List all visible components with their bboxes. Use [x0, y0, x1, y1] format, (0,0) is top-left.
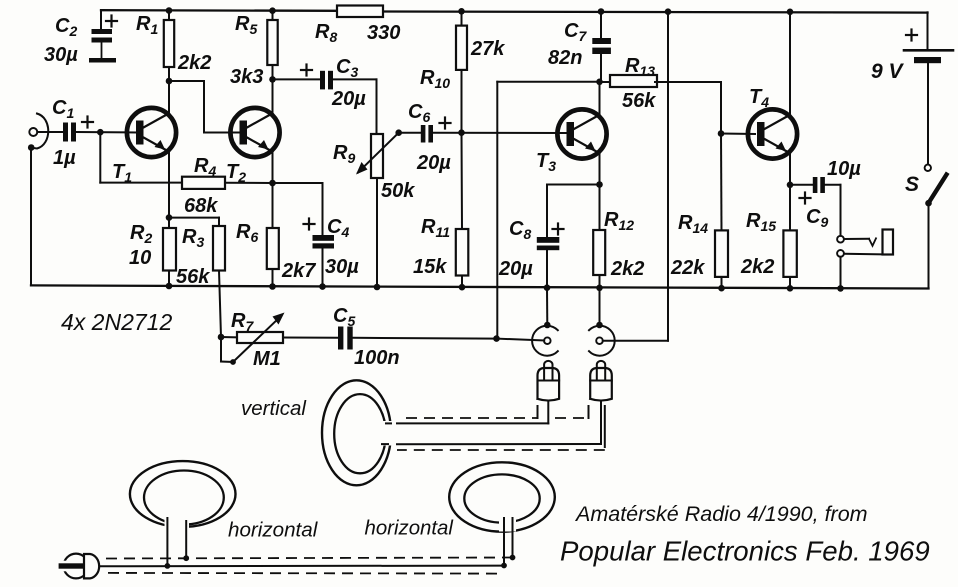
svg-text:R4: R4: [194, 155, 216, 179]
label C5: [333, 305, 355, 329]
wire T3 emitter: [599, 153, 601, 184]
label R10 value 27k: [470, 38, 505, 60]
svg-text:C9: C9: [806, 206, 828, 230]
node jack1 shell top: [544, 322, 551, 329]
label T3: [536, 150, 556, 174]
svg-text:T3: T3: [536, 150, 556, 174]
jack J3 tip contact: [596, 337, 603, 344]
svg-text:horizontal: horizontal: [365, 518, 454, 540]
label R12: [604, 209, 634, 233]
svg-text:2k2: 2k2: [177, 52, 211, 74]
switch S lever: [929, 175, 947, 204]
resistor R6: [267, 183, 279, 287]
input jack J1 sleeve arc: [28, 114, 48, 151]
node R15 bottom on rail: [787, 285, 794, 292]
label R9: [333, 142, 355, 166]
svg-text:C8: C8: [509, 218, 531, 242]
label C4 value 30µ: [325, 256, 359, 278]
label C7 value 82n: [548, 47, 582, 69]
svg-text:56k: 56k: [176, 266, 210, 288]
svg-text:68k: 68k: [184, 195, 218, 217]
svg-text:2k2: 2k2: [740, 256, 774, 278]
label C6 value 20µ: [416, 152, 451, 174]
input jack J1 tip contact: [29, 128, 37, 136]
label horizontal left: [228, 519, 319, 542]
resistor R8: [337, 6, 383, 18]
node R6 bottom on rail: [269, 283, 276, 290]
resistor R3: [213, 218, 225, 337]
svg-text:R9: R9: [333, 142, 355, 166]
resistor R13: [600, 75, 722, 134]
wire top supply rail left segment: [101, 9, 338, 12]
label C8: [509, 218, 531, 242]
label R13: [625, 55, 655, 79]
resistor R1: [164, 11, 174, 82]
node C7 top on rail: [598, 8, 605, 15]
transistor T2: [230, 108, 279, 157]
svg-text:10µ: 10µ: [827, 158, 861, 180]
node R9 wiper / C6: [395, 129, 402, 136]
label C2: [55, 15, 77, 39]
svg-text:15k: 15k: [413, 256, 447, 278]
svg-text:30µ: 30µ: [44, 44, 78, 66]
label R5: [235, 13, 257, 37]
cable dashed conductor lower: [108, 572, 503, 575]
polarity + of battery: [906, 30, 917, 41]
capacitor C9: [813, 177, 825, 193]
svg-text:Amatérské Radio 4/1990, from: Amatérské Radio 4/1990, from: [574, 502, 868, 526]
node C8 bottom / jack1 riser on rail: [544, 284, 551, 291]
cable solid conductor: [101, 565, 505, 568]
svg-text:50k: 50k: [381, 180, 415, 202]
svg-text:T2: T2: [226, 161, 246, 185]
svg-text:R8: R8: [315, 21, 337, 45]
polarity + of C3: [301, 65, 312, 76]
label C1 value 1µ: [53, 147, 76, 169]
polarity + of C9: [800, 193, 811, 204]
wire T3 collector: [599, 82, 601, 115]
resistor R5: [267, 11, 277, 80]
label R1 value 2k2: [177, 52, 211, 74]
wire R2 to R3 top: [169, 217, 219, 219]
transistor T4: [748, 109, 797, 158]
node T3 emitter / C8 / R12: [596, 181, 603, 188]
wire C1 node down to R4: [100, 132, 182, 182]
label vertical: [241, 397, 307, 420]
shield dashed line upper: [406, 406, 589, 418]
jack J2 shell arc: [532, 326, 558, 356]
label R9 value 50k: [381, 180, 415, 202]
label C9 value 10µ: [827, 158, 861, 180]
svg-text:100n: 100n: [354, 347, 400, 369]
wire top supply rail right segment: [383, 12, 928, 13]
wire rail to jack1: [546, 288, 548, 325]
label R2: [130, 222, 152, 246]
svg-text:20µ: 20µ: [416, 152, 451, 174]
wire T1 collector: [168, 81, 170, 113]
jack J3 shell arc: [589, 326, 615, 356]
svg-text:R5: R5: [235, 13, 257, 37]
transistor T3: [557, 109, 606, 158]
label R7: [231, 310, 254, 334]
jack J2 tip contact: [544, 337, 551, 344]
earphone plug: [883, 230, 894, 255]
node jack2 shell top: [596, 322, 603, 329]
label R1: [136, 13, 158, 37]
battery B1 negative plate: [914, 57, 941, 63]
label C7: [564, 20, 587, 44]
node R1 bottom / T1 collector: [166, 78, 173, 85]
svg-text:T4: T4: [749, 86, 769, 110]
resistor R11: [456, 133, 469, 288]
svg-text:R7: R7: [231, 310, 254, 334]
svg-text:3k3: 3k3: [230, 66, 263, 88]
wire C6 to T3 base: [433, 132, 566, 134]
label R4 value 68k: [184, 195, 218, 217]
node R2 bottom on rail: [166, 283, 173, 290]
wire T2 collector node to C3: [273, 78, 321, 80]
svg-text:22k: 22k: [670, 257, 705, 279]
svg-text:10: 10: [129, 247, 151, 269]
wire R9 wiper to C6: [399, 132, 421, 134]
switch S contact: [925, 165, 931, 171]
cable plug P3: [57, 554, 99, 579]
phono plug P1: [538, 361, 560, 401]
label T1: [112, 161, 132, 185]
wire C1 to T1 base: [76, 131, 137, 134]
node jack2 wire on top rail: [665, 8, 672, 15]
node switch bottom: [925, 200, 932, 207]
capacitor C3: [320, 71, 333, 90]
wire battery to switch: [927, 63, 929, 164]
label R2 value 10: [129, 247, 151, 269]
label R8 value 330: [367, 22, 400, 44]
svg-text:1µ: 1µ: [53, 147, 76, 169]
wire C9 to earphone contact: [825, 185, 841, 236]
svg-text:330: 330: [367, 22, 400, 44]
svg-text:horizontal: horizontal: [228, 519, 319, 542]
label transistor types 4x 2N2712: [61, 309, 172, 335]
wire node to T4 base: [721, 133, 755, 136]
node R9 bottom on rail: [374, 284, 381, 291]
node T3 collector / C7 / R13: [596, 79, 603, 86]
horizontal search coil L2: [130, 461, 236, 569]
battery B1 positive plate: [904, 49, 953, 52]
potentiometer R9: [371, 134, 383, 287]
node R3 bottom / R7: [218, 334, 225, 341]
svg-text:C1: C1: [52, 97, 74, 121]
polarity + of C6: [440, 118, 451, 129]
svg-text:C7: C7: [564, 20, 587, 44]
resistor R4: [182, 177, 273, 189]
svg-text:4x 2N2712: 4x 2N2712: [61, 309, 172, 335]
caption line 2: [560, 536, 930, 567]
label R15 value 2k2: [740, 256, 774, 278]
wire bottom ground rail: [31, 285, 929, 288]
wire T4 collector: [789, 12, 791, 115]
label C1: [52, 97, 74, 121]
label R14 value 22k: [670, 257, 705, 279]
svg-text:C6: C6: [408, 101, 430, 125]
capacitor C5: [338, 327, 353, 350]
wire plug1 to vertical coil: [388, 401, 548, 424]
svg-text:27k: 27k: [470, 38, 505, 60]
svg-text:R13: R13: [625, 55, 655, 79]
label C5 value 100n: [354, 347, 400, 369]
wire jack to C1: [37, 131, 63, 133]
wire node to C4: [273, 183, 323, 235]
wire rail to battery: [927, 12, 929, 49]
wire T2 collector: [272, 79, 274, 113]
label battery 9 V: [871, 60, 905, 83]
label R11 value 15k: [413, 256, 447, 278]
label T2: [226, 161, 246, 185]
svg-text:R3: R3: [182, 226, 204, 250]
resistor R15: [783, 185, 796, 288]
R9 wiper arrow: [356, 133, 399, 175]
label horizontal right: [365, 518, 454, 540]
label C3 value 20µ: [331, 88, 366, 110]
label R10: [420, 67, 450, 91]
label R6: [236, 221, 258, 245]
wire earphone upper lead with arrow: [844, 238, 876, 246]
capacitor C7: [592, 12, 611, 82]
label C2 value 30µ: [44, 44, 78, 66]
node T4 base / R13 / R14: [718, 130, 725, 137]
label R11: [421, 216, 450, 240]
label T4: [749, 86, 769, 110]
polarity + of C8: [553, 224, 564, 235]
wire earphone lower to rail: [840, 257, 842, 289]
svg-text:C3: C3: [336, 56, 358, 80]
capacitor C6: [421, 125, 433, 143]
wire rail corner to C2: [100, 10, 102, 29]
label R3: [182, 226, 204, 250]
svg-text:R11: R11: [421, 216, 450, 240]
node R14 bottom on rail: [718, 285, 725, 292]
polarity + of C4: [304, 219, 315, 230]
label M1: [253, 348, 281, 370]
label C6: [408, 101, 430, 125]
wire switch to rail: [928, 203, 930, 288]
label R13 value 56k: [622, 90, 656, 112]
node earphone on rail: [837, 285, 844, 292]
label C4: [327, 216, 349, 240]
label R5 value 3k3: [230, 66, 263, 88]
wire T4 emitter: [789, 153, 791, 185]
svg-text:R1: R1: [136, 13, 158, 37]
transistor T1: [127, 108, 176, 157]
node R5 bottom / T2 collector: [269, 76, 276, 83]
label C8 value 20µ: [498, 258, 533, 280]
svg-text:C4: C4: [327, 216, 349, 240]
label R3 value 56k: [176, 266, 210, 288]
svg-text:R10: R10: [420, 67, 450, 91]
label C3: [336, 56, 358, 80]
polarity + of C2: [106, 16, 117, 27]
wire C3 to R9 top: [333, 79, 377, 134]
wire T2 emitter: [272, 152, 274, 183]
wire T3 collector node left-down to search coils: [497, 82, 599, 338]
resistor R10: [456, 11, 467, 132]
node R12 bottom / jack2 riser on rail: [596, 285, 603, 292]
resistor R2: [163, 218, 176, 286]
wire C5 to jack1 contact: [353, 338, 545, 341]
svg-text:C5: C5: [333, 305, 355, 329]
svg-text:M1: M1: [253, 348, 281, 370]
label R15: [746, 210, 776, 234]
wire T4 emitter to C9: [790, 184, 813, 186]
node R11 bottom on rail: [459, 284, 466, 291]
wire T3 emitter to C8: [547, 185, 600, 238]
svg-text:S: S: [905, 173, 919, 196]
svg-text:C2: C2: [55, 15, 77, 39]
capacitor C2: [89, 29, 116, 63]
node R1 top: [166, 7, 173, 14]
label S: [905, 173, 919, 196]
node C5 line / collector feed: [493, 335, 500, 342]
node R5 top: [269, 7, 276, 14]
node T2 emitter / R4 / R6 / C4: [269, 180, 276, 187]
resistor R12: [593, 185, 605, 288]
earphone contact lower: [837, 250, 844, 257]
cable dashed conductor upper: [106, 558, 513, 559]
node R10 R11 junction: [458, 129, 465, 136]
node T4 collector on rail: [787, 9, 794, 16]
svg-text:20µ: 20µ: [498, 258, 533, 280]
phono plug P2: [590, 361, 612, 401]
svg-text:R15: R15: [746, 210, 776, 234]
capacitor C1: [63, 123, 76, 142]
label R6 value 2k7: [281, 260, 316, 282]
wire plug2 to vertical coil: [385, 401, 601, 445]
wire T1 emitter: [168, 152, 170, 218]
svg-text:T1: T1: [112, 161, 132, 185]
node T1 emitter / R2 R3: [166, 214, 173, 221]
svg-text:R14: R14: [678, 212, 708, 236]
caption line 1: [574, 502, 868, 526]
polarity + of C1: [82, 117, 93, 128]
svg-text:2k2: 2k2: [610, 258, 644, 280]
svg-text:20µ: 20µ: [331, 88, 366, 110]
label R4: [194, 155, 216, 179]
potentiometer R7: [221, 332, 338, 343]
wire rail to jack2: [599, 288, 601, 325]
svg-text:30µ: 30µ: [325, 256, 359, 278]
shield dashed line lower: [397, 406, 605, 450]
wire jack2 contact to top rail: [603, 12, 668, 341]
node base of T1: [97, 129, 104, 136]
svg-text:R6: R6: [236, 221, 258, 245]
earphone contact upper: [837, 236, 844, 243]
R7 wiper stub: [221, 337, 236, 365]
svg-text:R12: R12: [604, 209, 634, 233]
label C9: [806, 206, 828, 230]
wire input jack sleeve riser: [30, 148, 32, 286]
label R12 value 2k2: [610, 258, 644, 280]
node T4 emitter / R15 / C9: [787, 182, 794, 189]
label R8: [315, 21, 337, 45]
svg-text:82n: 82n: [548, 47, 582, 69]
svg-text:56k: 56k: [622, 90, 656, 112]
svg-text:vertical: vertical: [241, 397, 307, 420]
capacitor C4: [313, 235, 335, 287]
svg-text:R2: R2: [130, 222, 152, 246]
svg-text:Popular Electronics Feb. 1969: Popular Electronics Feb. 1969: [560, 536, 930, 567]
node C4 bottom on rail: [319, 283, 326, 290]
capacitor C8: [537, 237, 560, 288]
horizontal search coil L3: [449, 462, 555, 568]
label R14: [678, 212, 708, 236]
R7 wiper arrow: [233, 313, 285, 363]
node R10 top: [458, 8, 465, 15]
vertical search coil L1: [322, 380, 396, 485]
wire T1 collector to T2 base: [169, 81, 240, 133]
svg-text:9 V: 9 V: [871, 60, 905, 83]
wire earphone lower lead: [844, 253, 883, 256]
resistor R14: [715, 134, 728, 289]
svg-text:2k7: 2k7: [281, 260, 316, 282]
